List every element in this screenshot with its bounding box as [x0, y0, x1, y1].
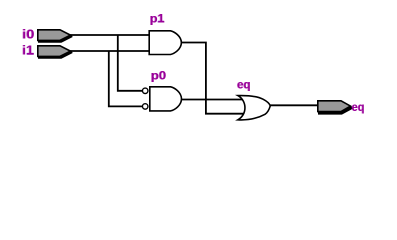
svg-text:p0: p0 [151, 68, 167, 82]
svg-text:eq: eq [352, 100, 365, 114]
svg-text:i0: i0 [22, 27, 34, 42]
svg-text:i1: i1 [22, 43, 34, 58]
svg-text:eq: eq [237, 78, 250, 92]
svg-text:p1: p1 [150, 12, 165, 26]
